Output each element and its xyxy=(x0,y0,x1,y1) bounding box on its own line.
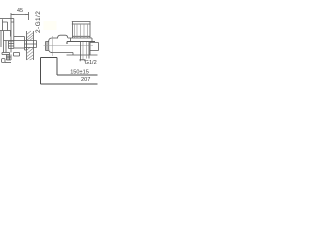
glyph near spout tip xyxy=(2,59,5,63)
centerline xyxy=(44,45,94,47)
handle base line xyxy=(0,30,11,32)
bonnet base xyxy=(67,42,95,45)
wall hatching upper xyxy=(27,31,34,41)
body end center mark vertical xyxy=(52,36,54,56)
body inner vertical xyxy=(10,31,12,37)
knob cap band xyxy=(72,24,91,36)
outlet inner verticals xyxy=(83,42,87,60)
spout flange xyxy=(2,53,10,55)
small bracket right of flange xyxy=(14,53,20,57)
body rounded left end xyxy=(49,38,52,53)
svg-text:45: 45 xyxy=(17,8,23,14)
wall corner vertical xyxy=(40,58,42,85)
tip dash xyxy=(5,62,11,64)
knob outer xyxy=(72,22,91,39)
wall pipe xyxy=(90,43,99,51)
svg-text:150±15: 150±15 xyxy=(70,70,89,76)
outlet bracket xyxy=(80,60,86,62)
pipe top line xyxy=(14,36,25,38)
platform step xyxy=(58,35,71,38)
svg-text:207: 207 xyxy=(81,77,90,83)
outlet verticals xyxy=(81,42,90,60)
body left nut xyxy=(46,42,49,51)
knob inner verticals xyxy=(74,24,87,38)
shelf line xyxy=(41,57,58,59)
spout right edge xyxy=(5,41,7,53)
pipe stub behind wall xyxy=(36,41,38,48)
pipe bottom line xyxy=(14,47,25,49)
pipe mid line xyxy=(4,40,37,42)
thread bands through wall xyxy=(25,44,37,48)
svg-text:G1/2: G1/2 xyxy=(85,60,97,66)
extension line right xyxy=(28,12,30,20)
spout tip block xyxy=(7,55,12,61)
body right block ribs xyxy=(9,41,14,49)
wall right edge xyxy=(33,31,35,60)
svg-text:2-G1/2: 2-G1/2 xyxy=(35,11,42,33)
wall left edge xyxy=(26,31,28,60)
150 dim vertical xyxy=(56,58,58,76)
body top xyxy=(52,37,58,39)
floor / 207 dim line xyxy=(41,83,98,85)
handle top line xyxy=(0,18,14,20)
bonnet flange sides xyxy=(71,38,93,42)
spout left edge xyxy=(3,31,5,53)
dim 45 arrows xyxy=(11,14,29,15)
body left edge xyxy=(0,31,2,47)
bonnet shoulder xyxy=(71,37,93,39)
handle grip rect xyxy=(3,19,8,30)
body right edge xyxy=(89,42,91,56)
pipe nut xyxy=(25,37,28,51)
body right block verticals xyxy=(9,41,12,53)
handle right edge / extension xyxy=(11,13,14,49)
body bottom left xyxy=(51,52,73,54)
150 dim line xyxy=(57,74,98,76)
wall hatching lower xyxy=(27,48,34,61)
dim line xyxy=(11,14,29,16)
body bottom right step xyxy=(67,53,98,56)
